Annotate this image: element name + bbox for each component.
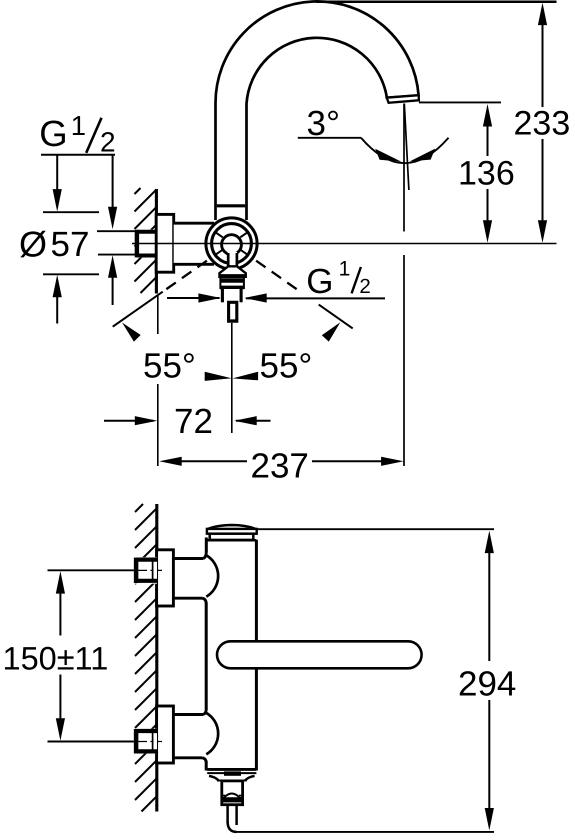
svg-text:72: 72: [174, 402, 213, 441]
svg-text:55°: 55°: [260, 346, 313, 385]
svg-text:57: 57: [51, 225, 90, 264]
svg-text:294: 294: [458, 664, 516, 703]
svg-text:55°: 55°: [143, 346, 196, 385]
svg-text:1: 1: [71, 110, 86, 141]
svg-text:G: G: [39, 113, 67, 154]
svg-text:136: 136: [458, 155, 515, 193]
svg-text:2: 2: [100, 127, 116, 158]
svg-text:233: 233: [514, 105, 571, 143]
svg-text:237: 237: [251, 446, 309, 485]
svg-text:1: 1: [339, 258, 351, 281]
svg-text:G: G: [306, 262, 333, 301]
svg-text:Ø: Ø: [19, 223, 47, 264]
svg-text:2: 2: [359, 275, 370, 298]
svg-text:150±11: 150±11: [3, 640, 109, 676]
